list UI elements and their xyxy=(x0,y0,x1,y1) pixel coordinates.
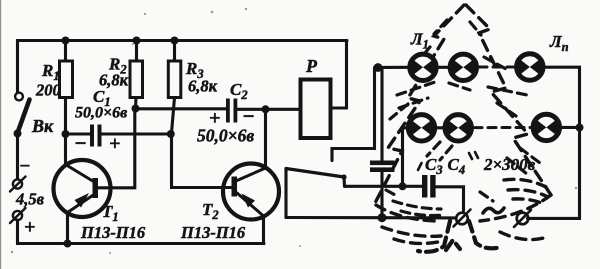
label C4 tick marks xyxy=(418,152,478,170)
svg-text:6,8к: 6,8к xyxy=(188,77,218,96)
scan edge artifact xyxy=(0,0,2,269)
christmas tree branches xyxy=(386,20,540,201)
wire lamp node to relay contact xyxy=(332,68,375,161)
wire R2 to T1 base xyxy=(99,98,137,188)
node R3 top xyxy=(171,37,179,45)
lamp L2 xyxy=(450,54,477,80)
svg-text:Вк: Вк xyxy=(31,116,54,136)
mains terminal 2 xyxy=(514,210,531,227)
wire right riser xyxy=(528,67,580,218)
relay contact blade xyxy=(286,169,347,218)
node R2 top xyxy=(133,37,141,45)
node R1 top xyxy=(62,37,70,45)
capacitor C2 xyxy=(136,99,301,123)
lamp L3 xyxy=(517,54,544,80)
lamp L5 xyxy=(445,115,472,141)
capacitor C1 xyxy=(66,125,171,147)
svg-text:−: − xyxy=(74,131,87,155)
svg-text:50,0×6в: 50,0×6в xyxy=(75,105,127,122)
lamp L1 xyxy=(410,54,437,80)
svg-text:200: 200 xyxy=(35,81,61,100)
switch Вк xyxy=(14,93,30,138)
christmas tree mid arcs xyxy=(393,201,444,216)
svg-text:−: − xyxy=(242,104,255,128)
node row2 drop xyxy=(399,182,407,190)
christmas tree lower skirt xyxy=(376,179,551,243)
transistor T1 xyxy=(54,160,111,244)
svg-text:+: + xyxy=(109,133,120,155)
transistor T2 xyxy=(223,164,279,244)
relay P coil xyxy=(301,41,347,139)
wire row2 drop xyxy=(403,128,407,187)
svg-text:P: P xyxy=(305,56,318,76)
battery terminal minus xyxy=(10,177,26,192)
capacitor C4 xyxy=(422,175,464,211)
battery terminal plus xyxy=(10,208,26,223)
svg-text:П13-П16: П13-П16 xyxy=(180,223,246,242)
node C1 left xyxy=(62,130,70,138)
mains tilde xyxy=(483,208,504,213)
svg-text:+: + xyxy=(24,217,35,239)
wire R1 to T1 collector xyxy=(64,98,67,165)
wire row2 dashed continuation xyxy=(474,126,531,129)
wire row1 dashed continuation xyxy=(479,66,514,69)
wire blade to C4 xyxy=(345,185,423,188)
lamp L4 xyxy=(408,115,435,141)
resistor R1 xyxy=(60,41,73,98)
wire lamps row1 xyxy=(378,66,408,69)
svg-text:П13-П16: П13-П16 xyxy=(80,223,146,242)
node row2 right xyxy=(576,124,584,132)
wire switch to battery terminal xyxy=(16,134,19,180)
lamp L6 xyxy=(533,114,560,140)
svg-text:−: − xyxy=(19,156,31,177)
wire bottom net xyxy=(286,216,455,219)
wire R3 to T2 base xyxy=(172,98,232,188)
resistor R2 xyxy=(130,41,143,98)
christmas tree trunk xyxy=(418,221,501,252)
wire T2 collector xyxy=(264,109,267,168)
wire lamps row2 xyxy=(437,126,443,129)
wire top rail xyxy=(18,41,348,93)
node C2 right / T2 collector xyxy=(262,105,270,113)
christmas tree dashed outline xyxy=(374,5,551,205)
capacitor C3 xyxy=(370,68,395,218)
wire bottom rail xyxy=(18,220,265,244)
mains terminal 1 xyxy=(454,210,471,227)
svg-text:2×300в: 2×300в xyxy=(483,155,536,174)
node R2 C2 junction xyxy=(132,105,140,113)
svg-text:50,0×6в: 50,0×6в xyxy=(197,126,254,146)
node emitter T1 on rail xyxy=(64,240,72,248)
node C3 bottom xyxy=(378,213,387,222)
resistor R3 xyxy=(168,41,181,98)
svg-text:4,5в: 4,5в xyxy=(15,190,45,209)
node lamp row 1 left xyxy=(374,63,383,72)
node C1 right / R3 lead xyxy=(167,130,175,138)
